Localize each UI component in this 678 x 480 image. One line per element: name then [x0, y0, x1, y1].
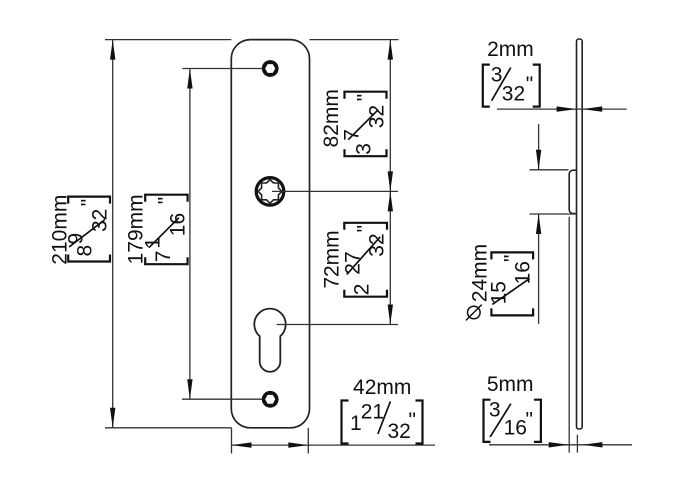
svg-text:179mm: 179mm	[124, 194, 147, 264]
label 72mm	[321, 230, 344, 288]
label 3 7/32 inch	[345, 149, 387, 156]
svg-text:7: 7	[152, 251, 175, 263]
svg-text:32: 32	[388, 420, 411, 443]
label 179mm	[124, 194, 147, 264]
top screw hole with hex socket	[262, 60, 279, 77]
label 3/16 inch	[484, 400, 491, 442]
label diameter symbol	[468, 306, 481, 319]
svg-text:210mm: 210mm	[49, 195, 72, 265]
dimension line 42mm	[232, 444, 436, 446]
dimension line 5mm	[489, 444, 632, 446]
svg-text:15: 15	[488, 281, 511, 304]
extension line spindle center	[272, 190, 398, 192]
dimension line 179mm	[189, 69, 191, 400]
svg-text:": "	[526, 408, 533, 431]
svg-text:": "	[354, 225, 377, 232]
label 15/16 inch	[491, 308, 533, 315]
svg-text:": "	[77, 199, 100, 206]
label 82mm	[320, 89, 343, 147]
svg-text:16: 16	[167, 213, 190, 236]
svg-text:": "	[526, 73, 533, 96]
svg-text:3: 3	[489, 399, 501, 422]
svg-text:8: 8	[74, 245, 97, 257]
svg-text:": "	[409, 409, 416, 432]
side view plate profile	[577, 39, 583, 429]
extension line plate top right	[310, 39, 399, 41]
extension line width right	[307, 428, 309, 454]
svg-text:2mm: 2mm	[487, 38, 534, 61]
dimension line 2mm	[497, 108, 627, 110]
svg-text:32: 32	[502, 83, 525, 106]
extension line width left	[231, 428, 233, 454]
svg-text:3: 3	[353, 143, 376, 155]
svg-text:32: 32	[366, 105, 389, 128]
bottom screw hole with hex socket	[262, 391, 279, 408]
center spindle hole ring	[256, 178, 284, 206]
svg-text:": "	[354, 94, 377, 101]
label 1 21/32 inch	[342, 401, 349, 444]
svg-text:21: 21	[361, 401, 384, 424]
label dia 24mm	[469, 244, 492, 302]
extension line keyhole center	[277, 324, 398, 326]
svg-text:72mm: 72mm	[321, 230, 344, 288]
extension line plate face	[576, 435, 578, 453]
label 2 27/32 inch	[344, 290, 387, 297]
svg-text:42mm: 42mm	[353, 376, 411, 399]
extension line plate top left	[105, 39, 231, 41]
label 210mm	[49, 195, 72, 265]
svg-text:16: 16	[512, 261, 535, 284]
label 8 9/32 inch	[68, 255, 110, 262]
svg-text:": "	[501, 255, 524, 262]
side view boss (cylinder collar)	[569, 170, 578, 213]
euro cylinder keyhole	[254, 309, 285, 372]
svg-text:27: 27	[342, 251, 365, 274]
svg-text:3: 3	[491, 64, 503, 87]
dimension line dia 24mm	[538, 124, 540, 170]
label 3/32 inch	[483, 65, 490, 107]
label 7 1/16 inch	[145, 257, 187, 264]
extension line plate bottom	[105, 427, 232, 429]
svg-text:16: 16	[504, 417, 527, 440]
extension line bottom hole center	[182, 398, 262, 400]
svg-text:32: 32	[366, 233, 389, 256]
extension line boss bottom	[530, 213, 577, 215]
svg-text:2: 2	[350, 284, 373, 296]
dimension line 82mm / 72mm	[389, 40, 391, 325]
center spindle 8-point star	[258, 180, 282, 204]
dimension line 210mm	[112, 40, 114, 428]
svg-text:": "	[154, 197, 177, 204]
extension line top hole center	[182, 68, 262, 70]
extension line boss face	[568, 217, 570, 453]
extension line boss top	[530, 169, 569, 171]
svg-text:5mm: 5mm	[487, 373, 534, 396]
front view plate outline	[231, 40, 309, 428]
